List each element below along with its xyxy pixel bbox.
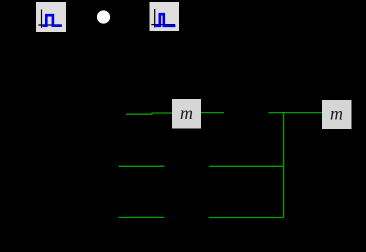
wire node A to M2 (269, 112, 323, 114)
wire vertical bus (283, 113, 285, 218)
wire row3 left (119, 216, 165, 218)
wire row3 right (209, 217, 284, 219)
svg-text:m: m (180, 103, 193, 123)
wire net1 to M1 (126, 113, 172, 114)
pulse source icon V2 (150, 2, 180, 31)
wire row2 left (119, 165, 165, 167)
wire M1 right stub (201, 112, 224, 114)
svg-text:m: m (330, 104, 343, 124)
memristor M2 (322, 100, 352, 129)
memristor M1 (172, 99, 201, 129)
wire row2 right (209, 165, 283, 167)
pulse source icon V1 (36, 2, 66, 32)
node junction circle (97, 10, 110, 23)
